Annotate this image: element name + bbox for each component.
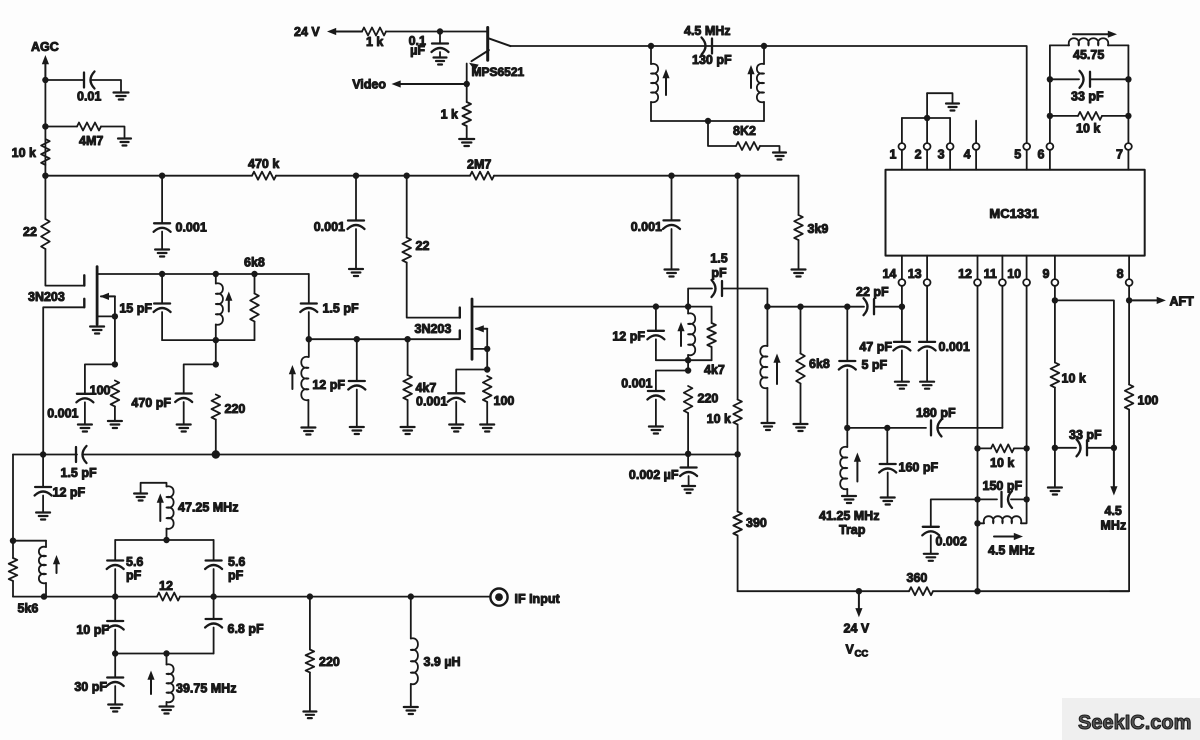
wire 1.5 pF down [308,312,310,339]
pin 6 stub [1049,150,1051,170]
svg-text:33 pF: 33 pF [1071,90,1104,104]
wire rail to 470pF node [215,340,217,364]
wire 220 to bus2 [215,420,217,455]
capacitor 150 pF [1000,492,1002,507]
junction bus 22 [404,173,410,179]
wire Q2 substrate down [114,296,116,316]
wire 5k6 coil bottom [13,541,46,597]
resistor 22 gate1 [41,219,50,249]
junction tank left [648,43,654,49]
wire tank2 rail [656,359,712,361]
wire 47.25 top [141,483,167,493]
wire 10 pF down [114,630,116,654]
pin 5 circle [1023,143,1030,150]
pin 11 circle [999,279,1006,286]
svg-text:0.001: 0.001 [416,395,447,409]
wire 5k6 top tie [13,540,46,542]
resistor 8K2 [736,142,760,150]
capacitor 5 pF [839,360,855,362]
junction 160 pF top [884,425,890,431]
resistor 470 k [252,172,276,180]
wire tank1 rail [162,339,254,341]
svg-text:14: 14 [882,267,896,281]
svg-text:390: 390 [746,516,767,530]
wire 5k6 coil lead [45,541,47,547]
junction bus 10k line [734,173,740,179]
capacitor 0.001 tank2 [648,390,664,392]
junction bus 0.001 a [159,173,165,179]
wire pin 6 up [1049,45,1051,143]
svg-text:4: 4 [964,148,971,162]
ground for 1 k emitter [459,138,474,140]
ground for 0.001 pin13 [920,381,934,383]
svg-text:220: 220 [698,392,719,406]
wire bus to cap c [671,176,673,221]
junction bp lower mid [163,650,169,656]
wire tank left vertical [650,46,652,64]
pin 1 stub [901,150,903,170]
svg-text:10 k: 10 k [990,456,1014,470]
capacitor 33 pF tank [1089,72,1091,87]
wire pin9 down [1054,286,1056,363]
wire cap c to ground [671,229,673,269]
wire out coil to ground [766,388,768,422]
wire Q3 source tap [472,348,487,350]
capacitor 12 pF interstage [349,380,365,382]
wire 33pF b right lead [1087,447,1114,449]
resistor 220 IF [306,650,315,673]
junction osc coil left [974,520,980,526]
wire drain to coil1 [215,274,217,284]
resistor 10 k pin9 [1051,363,1060,388]
svg-text:5.6: 5.6 [228,555,245,569]
svg-text:1.5: 1.5 [710,252,727,266]
svg-text:12 pF: 12 pF [312,378,345,392]
wire 12 pF input down [42,455,44,487]
wire tank bottom [651,120,764,122]
resistor 220 tank1 [212,395,221,420]
capacitor 0.002 uF [681,466,697,468]
wire bus to cap b [355,176,357,221]
svg-text:V: V [846,643,855,657]
junction drain 6k8 [251,271,257,277]
wire to resistor 4M7 [45,126,77,128]
wire tank bottom to 8K2 [708,121,736,146]
junction drain2 coil [685,303,691,309]
svg-text:10: 10 [1007,267,1021,281]
junction IF 3.9uH [408,593,414,599]
inductor tank2 [688,313,695,355]
junction 10k h right [1023,445,1029,451]
wire 180 pF line right [939,427,1002,429]
watermark background [1062,698,1200,740]
resistor 100 Q3 [483,376,492,402]
svg-text:5 pF: 5 pF [862,358,888,372]
svg-text:220: 220 [225,402,246,416]
ground for out coil [762,422,775,424]
capacitor 12 pF input [35,486,51,488]
junction 150 pF right [1023,496,1029,502]
arrow trap [856,460,858,482]
wire Q3 substrate down [486,329,488,349]
wire 5.6R to IF bus [213,569,215,597]
resistor 2M7 [470,172,494,180]
svg-text:4.5 MHz: 4.5 MHz [684,24,731,38]
wire coil1 to rail [215,325,217,341]
svg-text:0.002: 0.002 [936,535,967,549]
capacitor 0.001 Q2 [77,393,93,395]
wire 470 pF to ground [183,402,185,424]
wire rail2 down [687,360,689,370]
svg-text:Trap: Trap [839,523,866,537]
wire to 12 pF [356,339,358,381]
wire Q1 emitter down [466,64,468,103]
wire 10k to bus2 [737,425,739,455]
wire bp right mid [213,597,215,619]
junction tank2 bypass [685,367,691,373]
wire pin12 down [977,286,979,591]
junction Q3 bypass [484,366,490,372]
wire 100 Q3 to ground [486,402,488,424]
svg-text:1: 1 [889,148,896,162]
wire 22 to Q3 gate [407,263,460,318]
ground for 100 Q2 [108,420,122,422]
wire bp lower [115,653,213,655]
capacitor 5.6 pF left [107,559,123,561]
svg-text:12 pF: 12 pF [53,486,86,500]
wire IF bus a [13,596,157,598]
wire bypass right [722,289,767,307]
capacitor 30 pF [107,676,123,678]
arrow Q2 substrate [101,295,115,297]
wire 45.75 top right [1108,44,1128,46]
arrow tank2 [680,329,682,346]
resistor 5k6 [9,558,18,581]
arrow interstage coil [291,372,293,389]
wire tank right vertical [763,46,765,64]
wire IF bus b [180,596,490,598]
inductor 41.25 MHz trap [840,447,847,490]
svg-text:4.5: 4.5 [1105,504,1122,518]
transistor Q1 MPS6521 [486,28,489,61]
wire 5 pF down [846,370,848,428]
svg-text:39.75 MHz: 39.75 MHz [176,682,236,696]
wire tank left lower [650,102,652,121]
arrow 5k6 coil [56,562,58,573]
wire 160 pF down [886,428,888,464]
wire 0.002 to ground [930,535,932,553]
wire bp left low [114,654,116,678]
pin 11 stub [1001,256,1003,280]
inductor 39.75 MHz [167,664,174,702]
capacitor 0.1 uF [432,42,448,44]
pin 1 circle [899,143,906,150]
pin 9 stub [1054,256,1056,280]
svg-text:4.5 MHz: 4.5 MHz [988,544,1035,558]
node Video arrow [399,83,467,85]
ground for 220 IF [303,710,316,712]
wire osc coil leads [978,499,1027,523]
capacitor 0.001 Q3 [448,392,464,394]
svg-text:8: 8 [1117,267,1124,281]
svg-text:100: 100 [90,384,111,398]
svg-text:MPS6521: MPS6521 [472,65,525,79]
wire bp left upper [114,540,116,560]
capacitor 10 pF [107,620,123,622]
resistor 4k7 gate [403,375,412,400]
connector IF Input [490,589,507,606]
wire pin 7 up [1127,45,1129,143]
junction 10k right [1125,113,1131,119]
junction 150 pF left [974,496,980,502]
svg-text:0.001: 0.001 [47,407,78,421]
ground for 470 pF [177,423,191,425]
junction bus2 12pF [40,451,46,457]
svg-text:24 V: 24 V [294,25,320,39]
svg-text:13: 13 [908,267,922,281]
ground for 0.002 uF [682,485,695,487]
svg-text:100: 100 [494,394,515,408]
pin 10 stub [1026,256,1028,280]
wire Q2 source down [114,316,116,364]
ground for 3.9 uH [404,706,418,708]
resistor 22 gate2 [402,238,411,263]
resistor 220 tank2 [684,386,693,413]
wire 220 IF lead [309,597,311,650]
arrow tank right [750,72,752,88]
wire 220 tank2 to bus2 [687,413,689,454]
svg-text:µF: µF [410,44,425,58]
wire stage2 out [767,306,864,308]
junction tank right [761,43,767,49]
wire drain to 15 pF [161,274,163,303]
pin 6 circle [1047,143,1054,150]
wire bus2 main [84,454,738,456]
resistor 4k7 tank2 [707,323,716,347]
pin 2 stub [926,150,928,170]
svg-text:2M7: 2M7 [467,158,491,172]
svg-text:IF Input: IF Input [515,592,561,606]
junction 33pF left [1047,76,1053,82]
wire 45.75 top left [1050,44,1069,46]
junction 10k h left [974,445,980,451]
pin 10 circle [1023,279,1030,286]
pin 8 circle [1126,279,1133,286]
junction 33pF b left [1052,445,1058,451]
pin 9 circle [1052,279,1059,286]
wire 3.9uH to ground [410,684,412,706]
capacitor 1.5 pF series [75,447,77,462]
svg-text:30 pF: 30 pF [74,680,107,694]
junction Vcc pin12 [974,588,980,594]
svg-text:10 k: 10 k [12,146,36,160]
junction Q2 bypass [112,361,118,367]
svg-text:22: 22 [416,239,430,253]
wire 5k6 bottom [12,581,14,597]
inductor tank right [757,64,764,103]
resistor 6k8 out [796,354,805,384]
svg-text:1.5 pF: 1.5 pF [323,302,359,316]
wire to 0.001 tank2 [656,371,688,391]
node AGC arrow [44,62,46,80]
ground for 3k9 [792,268,806,270]
wire bp right upper [213,540,215,560]
junction tank2 rail [685,357,691,363]
svg-text:360: 360 [907,571,928,585]
wire main AGC bus [45,175,252,177]
pin 12 stub [977,256,979,280]
junction interstage c [404,336,410,342]
svg-text:11: 11 [984,267,997,281]
capacitor 5.6 pF right [206,559,222,561]
svg-text:3: 3 [938,148,945,162]
wire to coil 12pF [308,339,310,357]
transistor Q2 3N203 [96,267,99,325]
svg-text:4k7: 4k7 [704,363,725,377]
svg-text:0.001: 0.001 [314,220,345,234]
svg-text:pF: pF [711,266,727,280]
svg-text:SeekIC.com: SeekIC.com [1078,712,1191,734]
junction 10k left [1047,113,1053,119]
junction pin9 out [1052,297,1058,303]
junction pin8 AFT [1126,297,1132,303]
ground for pin9 [1048,486,1062,488]
junction bp lower left [112,650,118,656]
capacitor 160 pF [880,463,896,465]
svg-text:12: 12 [958,267,972,281]
wire pin8 to Vcc rail [1110,410,1129,592]
junction bus 0.001 c [668,173,674,179]
inductor 41.25 MHz trap lead [846,428,848,447]
svg-text:5k6: 5k6 [18,602,39,616]
pin 2 circle [924,143,931,150]
wire drain2 to 12 pF [655,307,657,331]
junction AGC/4M7 [42,123,48,129]
wire 0.001 Q3 to ground [455,402,457,424]
wire 6k8 to rail [254,322,256,341]
capacitor 180 pF [930,420,932,435]
wire pin9 to ground [1054,448,1056,487]
inductor stage2 out [760,346,767,389]
resistor 4M7 [77,123,101,131]
ground for trap [842,495,856,497]
wire 4k7 to ground [407,400,409,426]
arrow out coil [776,361,778,385]
ground for 12 pF input [36,511,50,513]
wire bus mid [276,175,470,177]
ground for 4k7 gate [401,426,415,428]
ground for 100 Q3 [480,423,494,425]
arrow osc coil [994,536,1016,538]
ground for 160 pF [881,496,895,498]
wire 47 pF to ground [901,350,903,380]
wire 33 pF right [1090,78,1128,80]
wire 10k h left lead [978,447,992,449]
wire 5.6L to IF bus [114,569,116,597]
pin 4 circle [973,143,980,150]
svg-text:100: 100 [1138,394,1159,408]
svg-text:0.01: 0.01 [77,90,101,104]
arrow 47.25 [159,501,161,522]
wire drain to 6k8 [254,274,256,294]
wire 8K2 to ground [760,146,780,152]
svg-text:AGC: AGC [31,40,59,54]
wire 390 to Vcc rail [737,536,739,592]
wire 33 pF left [1050,78,1079,80]
wire Q2 drain line [97,273,309,275]
resistor 360 [909,587,933,595]
wire 10k pin9 down [1054,388,1056,448]
svg-text:24 V: 24 V [844,622,870,636]
ground for 30 pF [108,703,122,705]
pin 3 circle [947,143,954,150]
resistor 10 k AGC [41,139,50,165]
resistor 1 k base [362,28,386,36]
svg-text:5: 5 [1014,148,1021,162]
wire 10 k tank left [1050,115,1078,117]
ground for 6k8 out [794,423,808,425]
wire 4M7 to ground [101,127,125,138]
capacitor 6.8 pF [206,618,222,620]
capacitor 22 pF [873,299,875,314]
inductor 3.9 uH [411,638,418,684]
svg-text:4k7: 4k7 [416,381,437,395]
wire Q2 source tap [97,315,115,317]
svg-text:470 pF: 470 pF [131,396,171,410]
pin 5 stub [1026,150,1028,170]
wire 12 pF tank2 down [655,339,657,360]
svg-text:2: 2 [915,148,922,162]
ground for 0.001 c [665,268,679,270]
capacitor 1.5 pF bypass [721,281,723,296]
wire pin2 to ground [927,93,952,102]
junction 4.5MHz line [1111,445,1117,451]
junction out 5pF [844,304,850,310]
wire 22 to Q2 gate1 [45,249,84,286]
inductor tank1 [216,283,223,325]
ground for 47 pF [895,381,909,383]
svg-text:1.5 pF: 1.5 pF [61,466,97,480]
svg-text:6k8: 6k8 [244,256,265,270]
resistor 3k9 [794,215,803,240]
wire 10k h right lead [1014,447,1027,449]
inductor 4.5 MHz osc [984,516,1022,523]
svg-text:1 k: 1 k [441,108,458,122]
svg-text:3k9: 3k9 [808,222,829,236]
wire bus2 to 390 [737,454,739,511]
wire out coil down [766,307,768,346]
capacitor 0.001 bus a [154,222,170,224]
wire 100 Q2 to ground [114,407,116,421]
wire 0.002uF down [687,454,689,468]
svg-text:AFT: AFT [1170,295,1195,309]
wire 0.001 tank2 to ground [655,400,657,426]
ground for 0.001 Q2 [78,423,92,425]
junction IF 5k6 [41,593,47,599]
wire bp left mid [114,597,116,621]
wire 30 pF to ground [114,686,116,704]
ground for 0.01 [114,91,129,93]
wire 160 pF to ground [887,473,889,497]
ground for 0.002 [924,553,938,555]
inductor interstage [301,357,308,401]
svg-text:180 pF: 180 pF [916,406,956,420]
svg-text:Video: Video [352,78,386,92]
capacitor 0.001 pin13 [919,341,935,343]
capacitor 470 pF [176,392,192,394]
ground for pins 1-3 [946,102,959,104]
svg-text:3N203: 3N203 [415,322,452,336]
